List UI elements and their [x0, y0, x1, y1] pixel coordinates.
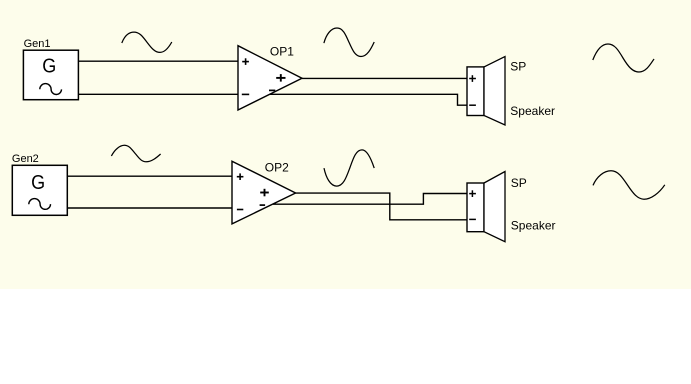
wire Gen2 bottom output to OP2 - input — [67, 207, 232, 209]
generator Gen2 box — [12, 165, 67, 215]
OP1 inverting input - mark — [242, 93, 249, 95]
svg-text:OP2: OP2 — [265, 161, 289, 175]
svg-text:Gen2: Gen2 — [12, 153, 39, 165]
wire OP2 output down-step to speaker SP2 - terminal — [296, 193, 467, 220]
svg-text:SP: SP — [510, 59, 526, 73]
canvas background — [0, 0, 691, 289]
svg-text:SP: SP — [511, 176, 527, 190]
speaker SP2 + terminal mark — [469, 190, 476, 197]
sine wave annotation above Gen2 top wire — [111, 145, 160, 162]
wire OP2 - rail up-step to speaker SP2 + terminal — [273, 194, 467, 205]
svg-text:Speaker: Speaker — [510, 104, 555, 118]
wire OP1 - rail to speaker SP1 - terminal — [270, 94, 467, 105]
svg-text:G: G — [31, 172, 45, 194]
sine wave annotation at OP1 output (in phase) — [324, 28, 374, 57]
Gen2 sine symbol — [29, 199, 51, 210]
op-amp OP2 — [232, 161, 296, 224]
Gen1 sine symbol — [40, 84, 62, 95]
OP2 output - polarity mark — [260, 204, 266, 206]
OP1 output + polarity mark — [276, 74, 285, 82]
OP1 output - polarity mark — [269, 89, 275, 91]
OP2 inverting input - mark — [237, 209, 243, 211]
svg-text:OP1: OP1 — [270, 45, 294, 59]
svg-text:Speaker: Speaker — [511, 218, 556, 232]
wire Gen2 top output to OP2 + input — [67, 175, 232, 177]
sine wave annotation speaker SP2 output — [593, 171, 665, 199]
op-amp OP1 — [238, 46, 302, 110]
svg-text:G: G — [42, 55, 56, 77]
wire Gen1 top output to OP1 + input — [78, 60, 238, 62]
sine wave annotation at OP2 output (inverted phase) — [324, 150, 374, 186]
speaker SP2 driver box — [467, 183, 484, 232]
sine wave annotation above Gen1 top wire — [122, 32, 172, 52]
sine wave annotation speaker SP1 output — [593, 44, 654, 72]
speaker SP1 horn — [484, 57, 505, 125]
speaker SP1 driver box — [467, 67, 484, 116]
speaker SP2 horn — [484, 172, 505, 242]
svg-text:Gen1: Gen1 — [24, 38, 51, 50]
OP2 output + polarity mark — [260, 189, 269, 197]
generator Gen1 box — [23, 50, 78, 99]
speaker SP2 - terminal mark — [469, 218, 476, 220]
speaker SP1 - terminal mark — [469, 104, 476, 106]
OP2 non-inverting input + mark — [237, 173, 244, 180]
wire Gen1 bottom output to OP1 - input — [78, 93, 238, 95]
wire OP1 output to speaker SP1 + terminal — [302, 77, 467, 79]
OP1 non-inverting input + mark — [242, 58, 249, 65]
speaker SP1 + terminal mark — [469, 75, 476, 82]
